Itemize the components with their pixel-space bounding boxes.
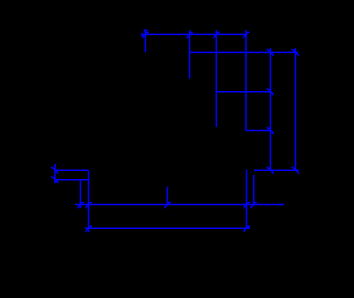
dimension line Vi (left step) — [54, 164, 56, 183]
tick on H1 chain pt2 — [187, 32, 193, 38]
dimension line H7 (lower bottom) — [85, 227, 250, 229]
extension line Vl — [166, 187, 168, 205]
dimension line Vh (right overall) — [295, 48, 297, 170]
tick at H7 left — [86, 226, 92, 232]
dimension line H4 — [246, 130, 272, 132]
dimension line Ha (left step upper) — [55, 169, 89, 171]
extension line Vd — [245, 30, 247, 131]
extension line Vk — [88, 170, 90, 232]
tick V-chain at H4 — [266, 128, 273, 134]
tick small V-dim top — [51, 167, 58, 173]
dimension line H1 (top chain) — [142, 33, 247, 35]
tick on H6 pt4 — [244, 202, 250, 208]
extension line Vc — [215, 30, 217, 127]
tick on H6 pt3 — [165, 202, 171, 208]
tick small V-dim bottom — [51, 177, 58, 183]
tick on H6 pt2 — [86, 202, 92, 208]
tick H2 right end corner — [292, 50, 299, 56]
tick on H1 chain pt3 — [214, 32, 220, 38]
dimension line H5 (right lower) — [254, 169, 299, 171]
extension line Va — [144, 30, 146, 53]
tick on H6 pt1 — [78, 202, 84, 208]
tick H5 right end corner — [292, 167, 299, 173]
tick on H6 pt5 — [251, 202, 257, 208]
dimension line H3 — [216, 91, 271, 93]
tick V-chain at H3 — [266, 89, 273, 95]
dimension line Hb (left step lower) — [55, 179, 89, 181]
extension line Ve — [246, 170, 248, 229]
tick H5/V-chain corner — [266, 167, 273, 173]
tick at H1 right end — [244, 32, 250, 38]
extension line Vf — [253, 175, 255, 205]
extension line Vj — [79, 180, 81, 208]
tick at H7 right — [244, 226, 250, 232]
dimension line H6 (long bottom) — [75, 204, 284, 206]
dimension line Vg (right chain) — [269, 48, 271, 171]
dimension line H2 — [190, 51, 298, 53]
extension line Vb — [189, 30, 191, 79]
tick at H1 left end — [141, 29, 149, 38]
tick H2/V-chain corner — [266, 50, 273, 56]
